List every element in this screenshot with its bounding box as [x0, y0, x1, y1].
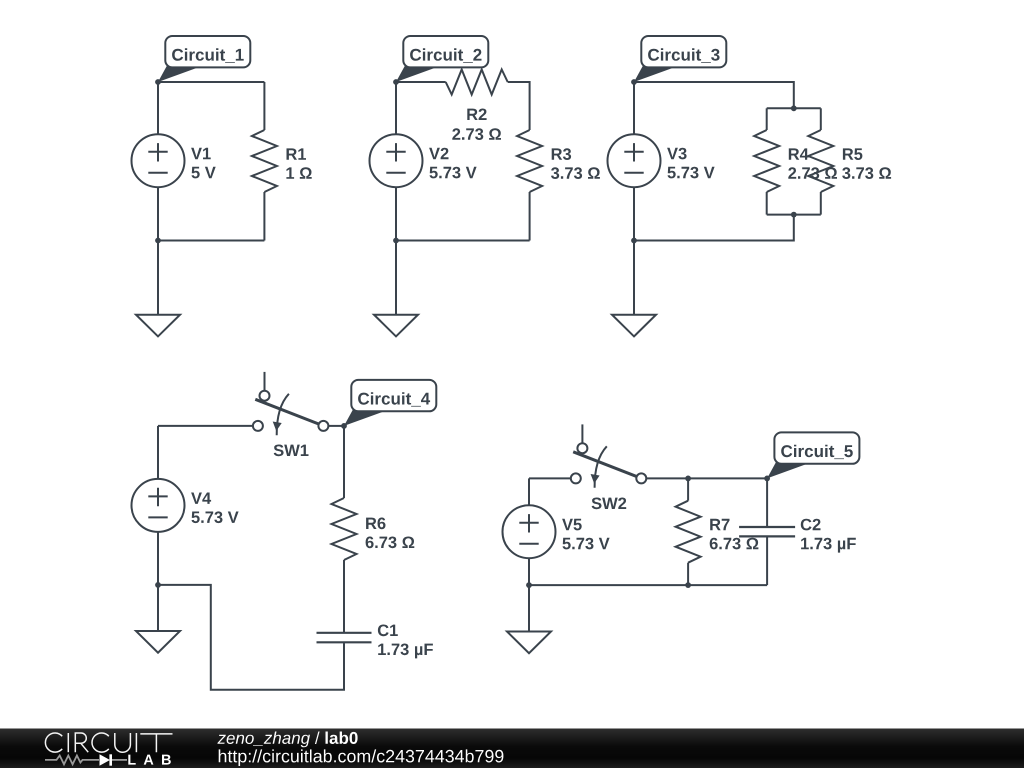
label V5 = 5.73 V — [562, 519, 610, 550]
logo LAB text — [128, 755, 171, 765]
resistor R3 — [517, 130, 542, 192]
node: circuit3 parallel bottom junction — [791, 212, 797, 218]
wire: circuit5 R7 bottom lead — [687, 563, 689, 585]
label V3 = 5.73 V — [667, 148, 715, 179]
wire: circuit2 top rail left of R2 — [396, 81, 446, 83]
node: circuit5 R7 top junction — [685, 476, 691, 482]
resistor R4 — [754, 130, 779, 192]
ground — [612, 315, 656, 337]
voltage source V4 — [132, 479, 185, 532]
wire: circuit2 top rail right of R2 and R3 top lead — [508, 82, 530, 130]
wire: circuit3 R4 bottom lead — [766, 192, 768, 215]
wire: circuit3 R4 top lead — [766, 108, 768, 130]
switch SW1 — [253, 372, 329, 435]
wire: circuit3 R5 bottom lead — [820, 192, 822, 215]
wire: circuit3 bottom rail — [634, 215, 794, 241]
wire: circuit5 bottom rail — [529, 584, 767, 586]
label V2 = 5.73 V — [429, 148, 477, 179]
wire: circuit5 C2 top lead — [766, 478, 768, 526]
wire: circuit5 V5 top lead — [528, 478, 530, 505]
node: circuit4 SW1-R6 junction — [341, 423, 347, 429]
wire: circuit3 parallel top bus — [767, 107, 821, 109]
label R5 = 3.73 Ohm — [842, 148, 891, 179]
wire: circuit3 ground stem — [633, 241, 635, 315]
resistor R2 — [446, 70, 508, 95]
logo resistor-diode glyph — [45, 754, 127, 765]
footer title: zeno_zhang / lab0 — [217, 732, 357, 748]
switch SW2 — [571, 424, 647, 487]
wire: circuit4 V4 top lead — [157, 426, 159, 479]
node: circuit2 top — [393, 79, 399, 85]
wire: circuit1 bottom rail — [158, 240, 264, 242]
node: circuit1 bottom — [155, 238, 161, 244]
wire: circuit3 V3 top lead — [633, 82, 635, 134]
resistor R7 — [676, 501, 701, 563]
Circuit 1 — [132, 36, 312, 336]
node flag Circuit_1 — [158, 36, 250, 82]
wire: circuit4 R6 top lead — [343, 426, 345, 498]
node: circuit3 top — [631, 79, 637, 85]
wire: circuit4 top rail to SW1 left terminal — [158, 425, 253, 427]
wire: circuit5 top rail to SW2 left terminal — [529, 477, 571, 479]
node: circuit1 top — [155, 79, 161, 85]
wire: circuit5 SW2 right terminal to C2 node — [647, 477, 768, 479]
wire: circuit1 R1 top lead — [263, 82, 265, 130]
node flag Circuit_5 — [767, 432, 859, 478]
label C1 = 1.73 uF — [378, 625, 433, 659]
node flag Circuit_4 — [344, 380, 436, 426]
voltage source V3 — [608, 134, 661, 187]
wire: circuit2 bottom rail — [396, 240, 530, 242]
label R4 = 2.73 Ohm — [788, 148, 837, 179]
node: circuit3 parallel top junction — [791, 105, 797, 111]
Circuit 4 — [132, 372, 437, 690]
node: circuit5 bottom — [526, 582, 532, 588]
node: circuit5 R7 bottom junction — [685, 582, 691, 588]
wire: circuit3 R5 top lead — [820, 108, 822, 130]
voltage source V2 — [370, 134, 423, 187]
ground — [136, 315, 180, 337]
label R7 = 6.73 Ohm — [710, 519, 759, 550]
Circuit 5 — [503, 424, 860, 653]
ground — [374, 315, 418, 337]
label SW2 — [592, 498, 627, 510]
label V1 = 5 V — [191, 148, 216, 179]
wire: circuit4 V4 bottom lead — [157, 532, 159, 585]
wire: circuit5 V5 bottom lead — [528, 558, 530, 585]
resistor R6 — [332, 498, 357, 560]
footer url text — [219, 749, 504, 766]
wire: circuit4 C1 bottom return wire — [158, 585, 344, 690]
wire: circuit3 parallel bottom bus — [767, 214, 821, 216]
label R6 = 6.73 Ohm — [366, 518, 415, 549]
capacitor C1 — [317, 633, 372, 643]
wire: circuit1 R1 bottom lead — [263, 192, 265, 241]
wire: circuit2 ground stem — [395, 241, 397, 315]
node: circuit4 bottom — [155, 582, 161, 588]
node: circuit3 bottom — [631, 238, 637, 244]
node flag Circuit_2 — [396, 36, 488, 82]
CircuitLab logo wordmark CIRCUIT (drawn thin letters) — [45, 733, 172, 752]
wire: circuit1 ground stem — [157, 241, 159, 315]
label V4 = 5.73 V — [191, 493, 239, 524]
label R1 = 1 Ohm — [286, 148, 311, 178]
Circuit 2 — [370, 36, 600, 336]
wire: circuit5 C2 bottom lead — [766, 537, 768, 585]
Circuit 3 — [608, 36, 892, 336]
resistor R1 — [252, 130, 277, 192]
wire: circuit2 R3 bottom lead — [529, 192, 531, 241]
node: circuit2 bottom — [393, 238, 399, 244]
wire: circuit2 V2 bottom lead — [395, 187, 397, 240]
wire: circuit4 SW1 right terminal to node — [328, 425, 344, 427]
ground — [136, 631, 180, 653]
wire: circuit4 R6 to C1 lead — [343, 560, 345, 632]
label R3 = 3.73 Ohm — [551, 148, 600, 179]
wire: circuit1 V1 bottom lead — [157, 187, 159, 240]
wire: circuit1 V1 top lead — [157, 82, 159, 134]
node: circuit5 C2 top / flag node — [764, 476, 770, 482]
resistor R5 — [808, 130, 833, 192]
label R2 = 2.73 Ohm — [452, 109, 501, 141]
wire: circuit4 ground stem — [157, 585, 159, 631]
wire: circuit2 V2 top lead — [395, 82, 397, 134]
label C2 = 1.73 uF — [801, 519, 856, 553]
label SW1 — [274, 445, 309, 457]
wire: circuit5 R7 top lead — [687, 478, 689, 500]
wire: circuit3 top rail — [634, 82, 794, 108]
wire: circuit3 V3 bottom lead — [633, 187, 635, 240]
capacitor C2 — [739, 527, 795, 536]
voltage source V5 — [503, 505, 556, 558]
wire: circuit5 ground stem — [528, 585, 530, 631]
wire: circuit1 top rail — [158, 81, 264, 83]
ground — [507, 632, 551, 654]
voltage source V1 — [132, 134, 185, 187]
node flag Circuit_3 — [634, 36, 726, 82]
